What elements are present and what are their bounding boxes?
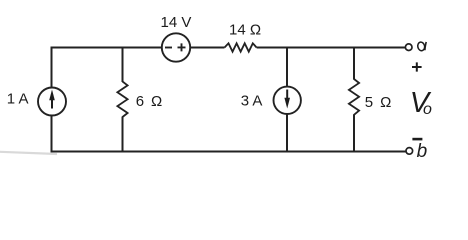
svg-text:b: b [417, 141, 428, 162]
wire: top rail right segment to terminal a [257, 47, 406, 49]
wire: 3A branch lower [286, 114, 288, 153]
plus sign of Vo [412, 62, 422, 71]
terminal b open circle [406, 148, 413, 155]
current source 1A [38, 88, 66, 116]
svg-text:5 Ω: 5 Ω [365, 94, 393, 111]
wire: top rail left segment [52, 47, 162, 49]
svg-text:6 Ω: 6 Ω [136, 93, 164, 110]
resistor 14 ohm zigzag [225, 43, 257, 51]
wire: 6 ohm branch lower [122, 117, 124, 153]
resistor 5 ohm zigzag [349, 79, 359, 115]
terminal a open circle [405, 44, 412, 51]
resistor 6 ohm zigzag [117, 82, 127, 118]
svg-text:1 A: 1 A [7, 91, 29, 108]
svg-text:o: o [423, 101, 432, 118]
current source 3A [274, 87, 301, 114]
svg-text:14 V: 14 V [161, 14, 192, 31]
svg-text:3 A: 3 A [241, 92, 263, 109]
voltage source 14V [162, 33, 190, 61]
wire: top rail between source and resistor [190, 47, 224, 49]
wire: left branch lower [51, 116, 53, 153]
wire: 5 ohm branch lower [353, 114, 355, 152]
wire: 5 ohm branch upper [353, 47, 355, 80]
wire: 3A branch upper [286, 47, 288, 88]
minus sign of Vo [412, 138, 422, 141]
svg-text:14 Ω: 14 Ω [229, 21, 261, 38]
wire: bottom rail [52, 151, 407, 153]
wire: 6 ohm branch upper [122, 47, 124, 83]
node label a [417, 41, 426, 51]
wire: left branch upper [51, 47, 53, 88]
